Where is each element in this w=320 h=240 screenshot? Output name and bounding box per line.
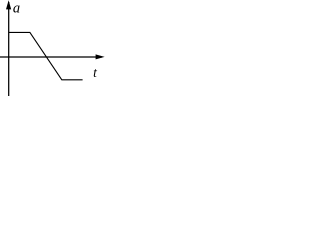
vertical axis (a-axis) wire [8,2,10,96]
horizontal axis arrowhead [96,54,105,59]
vertical axis arrowhead [6,0,11,9]
svg-text:t: t [93,65,98,80]
horizontal axis (t-axis) wire [0,56,102,58]
curve: plateau, ramp down, lower plateau [9,32,83,79]
svg-text:a: a [13,1,20,17]
a vs t graph [0,0,106,96]
